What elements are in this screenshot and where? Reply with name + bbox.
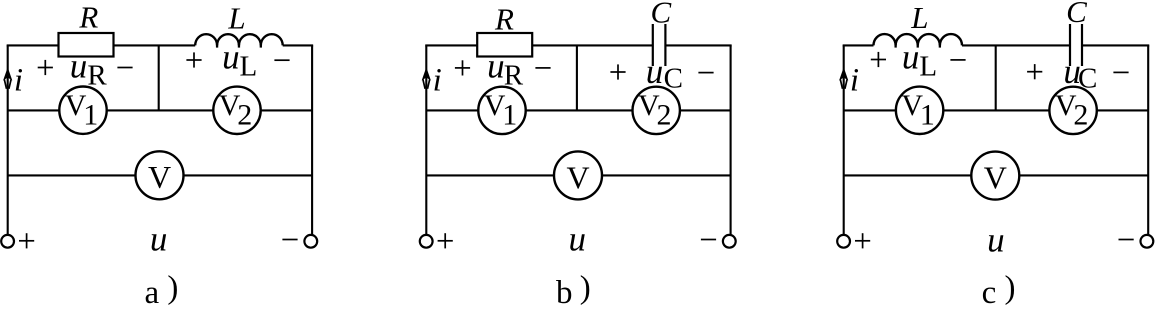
wire top right segment (c)	[1082, 44, 1149, 46]
voltmeter V1 (b)	[478, 87, 525, 134]
svg-text:L: L	[910, 0, 928, 35]
voltmeter V (c)	[971, 152, 1019, 200]
svg-text:c: c	[982, 275, 997, 310]
svg-text:C: C	[1078, 62, 1097, 94]
wire voltmeter row V1 V2 (b)	[426, 109, 730, 111]
wire voltmeter row V1 V2 (c)	[844, 109, 1148, 111]
voltmeter V2 (b)	[633, 87, 680, 134]
minus sign u_C row (c)	[1113, 71, 1128, 73]
wire top left segment (c)	[843, 44, 874, 46]
wire middle branch (c)	[995, 45, 997, 110]
svg-text:R: R	[87, 60, 107, 92]
capacitor C (c)	[1069, 24, 1071, 66]
svg-text:C: C	[664, 62, 683, 94]
wire top middle segment (b)	[532, 44, 653, 46]
svg-text:): )	[167, 270, 178, 306]
wire left rail (b)	[425, 45, 427, 235]
minus sign at terminal (a)	[282, 239, 297, 241]
svg-text:2: 2	[1073, 99, 1088, 132]
wire right rail (b)	[730, 45, 732, 235]
svg-text:u: u	[487, 47, 505, 86]
svg-text:): )	[580, 270, 591, 306]
wire voltmeter row V1 V2 (a)	[8, 109, 312, 111]
svg-text:u: u	[987, 220, 1005, 259]
svg-text:2: 2	[657, 99, 672, 132]
svg-text:L: L	[239, 51, 257, 83]
wire top right segment (b)	[665, 44, 731, 46]
terminal plus (b)	[420, 235, 433, 248]
minus sign u_R row (b)	[535, 67, 550, 69]
current arrow i (c)	[839, 67, 848, 80]
capacitor C (b)	[652, 24, 654, 66]
svg-text:i: i	[850, 63, 859, 99]
svg-text:L: L	[919, 51, 937, 83]
voltmeter V1 (c)	[896, 87, 943, 134]
wire top left segment (a)	[7, 44, 59, 46]
terminal plus (c)	[837, 235, 850, 248]
wire right rail (c)	[1147, 45, 1149, 235]
terminal minus (b)	[723, 235, 736, 248]
plus sign u_L row (c)	[871, 59, 886, 61]
wire voltmeter row V (b)	[426, 174, 730, 176]
resistor R (b)	[477, 33, 532, 57]
minus sign at terminal (c)	[1119, 239, 1134, 241]
plus sign u_C row (b)	[610, 71, 625, 73]
svg-text:V: V	[984, 160, 1007, 196]
plus sign u_L row (a)	[186, 59, 201, 61]
resistor R (a)	[59, 33, 114, 57]
minus sign u_C row (b)	[698, 72, 713, 74]
svg-text:): )	[1005, 270, 1016, 306]
voltmeter V2 (c)	[1049, 87, 1096, 134]
svg-text:R: R	[494, 1, 514, 36]
svg-text:a: a	[144, 275, 159, 310]
svg-text:u: u	[569, 220, 587, 259]
svg-text:u: u	[150, 220, 168, 259]
plus sign at terminal (c)	[855, 240, 870, 242]
wire middle branch (b)	[576, 45, 578, 110]
wire voltmeter row V (c)	[844, 174, 1148, 176]
minus sign u_R row (a)	[117, 67, 132, 69]
current arrow i (b)	[422, 67, 431, 80]
svg-text:C: C	[650, 0, 671, 30]
minus sign at terminal (b)	[701, 239, 716, 241]
plus sign at terminal (a)	[19, 240, 34, 242]
plus sign u_R row (a)	[38, 67, 53, 69]
wire top left segment (b)	[425, 44, 477, 46]
voltmeter V1 (a)	[59, 87, 106, 134]
svg-text:u: u	[902, 37, 920, 76]
svg-text:R: R	[78, 0, 98, 34]
plus sign at terminal (b)	[438, 240, 453, 242]
wire middle branch (a)	[158, 45, 160, 110]
inductor L (c)	[874, 34, 963, 45]
minus sign u_L row (c)	[950, 59, 965, 61]
inductor L (a)	[195, 34, 283, 45]
svg-text:1: 1	[83, 99, 98, 132]
svg-text:1: 1	[920, 99, 935, 132]
wire voltmeter row V (a)	[8, 174, 312, 176]
wire top right segment (a)	[283, 44, 313, 46]
svg-text:1: 1	[502, 99, 517, 132]
wire top middle segment (c)	[962, 44, 1070, 46]
svg-text:2: 2	[237, 99, 252, 132]
svg-text:u: u	[222, 37, 240, 76]
plus sign u_C row (c)	[1027, 71, 1042, 73]
wire right rail (a)	[311, 45, 313, 235]
svg-text:u: u	[646, 52, 664, 91]
svg-text:R: R	[504, 60, 524, 92]
svg-text:b: b	[556, 275, 573, 310]
voltmeter V (b)	[554, 151, 602, 199]
minus sign u_L row (a)	[274, 59, 289, 61]
terminal minus (a)	[304, 235, 317, 248]
current arrow i (a)	[3, 67, 12, 80]
svg-text:i: i	[433, 63, 442, 99]
wire left rail (c)	[843, 45, 845, 235]
wire left rail (a)	[7, 45, 9, 235]
terminal minus (c)	[1141, 235, 1154, 248]
svg-text:u: u	[70, 47, 88, 86]
plus sign u_R row (b)	[455, 67, 470, 69]
svg-text:i: i	[14, 63, 23, 99]
voltmeter V (a)	[136, 151, 184, 199]
voltmeter V2 (a)	[213, 87, 260, 134]
terminal plus (a)	[1, 235, 14, 248]
svg-text:V: V	[566, 159, 589, 195]
svg-text:L: L	[227, 1, 245, 36]
svg-text:V: V	[148, 159, 171, 195]
svg-text:C: C	[1066, 0, 1087, 29]
wire top middle segment (a)	[114, 44, 196, 46]
